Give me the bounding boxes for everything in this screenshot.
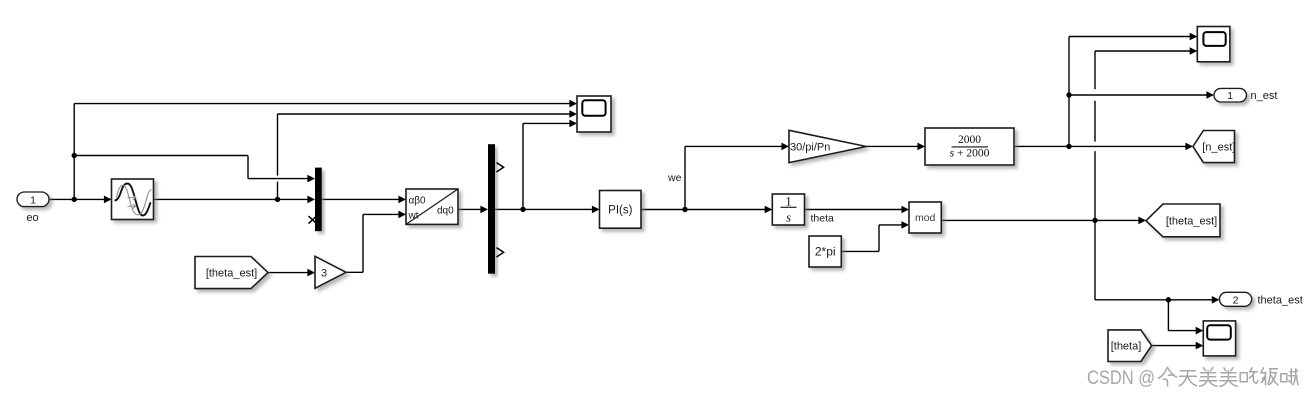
svg-text:wt: wt	[408, 211, 419, 222]
svg-text:PI(s): PI(s)	[608, 204, 632, 216]
svg-text:[n_est]: [n_est]	[1202, 142, 1235, 154]
svg-text:dq0: dq0	[437, 206, 454, 217]
svg-text:n_est: n_est	[1251, 90, 1278, 102]
svg-text:theta_est: theta_est	[1258, 295, 1303, 307]
svg-text:[theta_est]: [theta_est]	[1166, 216, 1217, 228]
svg-text:αβ0: αβ0	[409, 196, 427, 207]
svg-text:s + 2000: s + 2000	[950, 148, 990, 160]
svg-text:1: 1	[30, 194, 36, 206]
svg-text:3: 3	[321, 268, 327, 280]
svg-text:1: 1	[1227, 90, 1233, 102]
svg-text:theta: theta	[811, 212, 835, 224]
svg-text:we: we	[667, 172, 682, 184]
svg-text:2*pi: 2*pi	[815, 245, 836, 259]
svg-text:s: s	[786, 211, 791, 225]
svg-text:[theta]: [theta]	[1111, 341, 1142, 353]
svg-text:eo: eo	[26, 212, 38, 224]
svg-text:2: 2	[1233, 294, 1239, 306]
svg-text:CSDN @: CSDN @	[1087, 367, 1155, 389]
svg-text:1: 1	[785, 195, 791, 209]
svg-text:2000: 2000	[958, 134, 981, 146]
svg-text:30/pi/Pn: 30/pi/Pn	[790, 141, 830, 153]
svg-text:[theta_est]: [theta_est]	[206, 268, 257, 280]
svg-text:mod: mod	[915, 212, 936, 224]
